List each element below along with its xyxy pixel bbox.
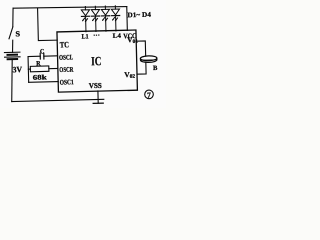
svg-text:L4: L4 xyxy=(113,33,122,40)
svg-text:S: S xyxy=(15,29,20,38)
wire node to OSC1 xyxy=(29,81,58,84)
wire TC pin to top bus xyxy=(38,8,58,41)
LED D1 xyxy=(81,6,90,31)
battery 3V cells xyxy=(4,52,20,59)
switch S blade xyxy=(9,27,13,39)
wire capacitor right lead to OSCL xyxy=(44,55,58,57)
svg-text:3V: 3V xyxy=(12,65,22,74)
figure number 7 circled xyxy=(145,90,154,100)
wire resistor left lead xyxy=(28,68,30,70)
wire battery to bottom rail xyxy=(11,59,14,101)
svg-text:···: ··· xyxy=(93,31,100,39)
svg-text:OSCR: OSCR xyxy=(59,66,74,74)
svg-text:68k: 68k xyxy=(33,73,47,81)
wire bottom rail xyxy=(12,99,104,101)
svg-text:IC: IC xyxy=(91,54,102,68)
svg-text:VSS: VSS xyxy=(89,81,102,90)
svg-text:OSC1: OSC1 xyxy=(60,78,75,86)
resistor R body xyxy=(30,66,49,72)
svg-text:TC: TC xyxy=(60,40,69,49)
svg-text:OSCL: OSCL xyxy=(59,53,73,61)
wire RC left rail xyxy=(27,57,30,83)
op-amp IC box xyxy=(57,30,137,92)
svg-text:R: R xyxy=(36,60,41,67)
wire V01 pin to buzzer xyxy=(136,41,145,56)
buzzer B body xyxy=(140,56,157,63)
LED D3 xyxy=(101,6,110,31)
svg-text:B: B xyxy=(153,65,158,72)
wire top bus xyxy=(13,5,127,9)
LED D2 xyxy=(91,6,100,31)
wire resistor right lead to OSCR xyxy=(49,67,58,69)
ground bar xyxy=(93,102,103,104)
svg-text:L1: L1 xyxy=(82,33,89,40)
wire capacitor left lead xyxy=(28,55,40,57)
wire switch to battery xyxy=(11,40,14,52)
LED D4 xyxy=(111,6,120,31)
svg-text:C: C xyxy=(40,48,45,55)
svg-text:7: 7 xyxy=(147,91,151,100)
wire VSS ground stem xyxy=(97,91,99,103)
svg-text:D1~ D4: D1~ D4 xyxy=(127,11,151,20)
wire VCC pin xyxy=(126,7,129,31)
wire left rail upper xyxy=(12,8,13,26)
capacitor C plates xyxy=(40,53,44,59)
wire V02 pin to buzzer xyxy=(137,62,146,74)
